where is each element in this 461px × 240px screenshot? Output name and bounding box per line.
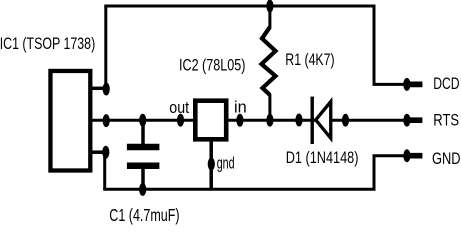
wire C1 top lead xyxy=(141,120,145,147)
svg-text:RTS: RTS xyxy=(433,111,459,130)
diode D1 cathode bar xyxy=(311,97,314,144)
svg-text:D1 (1N4148): D1 (1N4148) xyxy=(286,148,359,167)
terminal stub DCD xyxy=(406,82,422,88)
resistor R1 zigzag xyxy=(262,27,276,95)
IC1 TSOP1738 body xyxy=(50,71,90,171)
junction dot top rail at R1 xyxy=(266,0,273,13)
junction dot D1 anode lead xyxy=(295,114,302,127)
svg-text:R1 (4K7): R1 (4K7) xyxy=(285,50,334,69)
wire DCD drop from top rail xyxy=(373,6,376,84)
svg-text:IC1 (TSOP 1738): IC1 (TSOP 1738) xyxy=(0,34,95,53)
wire R1 bottom lead xyxy=(268,94,271,120)
junction dot C1 top xyxy=(139,114,146,127)
svg-text:GND: GND xyxy=(432,149,461,168)
junction dot C1 bottom xyxy=(139,183,146,196)
wire IC1 pin1 stub xyxy=(91,87,106,91)
junction dot D1 cathode lead xyxy=(342,114,349,127)
capacitor C1 bottom plate xyxy=(127,163,159,170)
wire IC1 pin3 stub xyxy=(91,150,106,154)
wire riser from IC1 pin1 to top rail xyxy=(104,6,107,88)
svg-text:out: out xyxy=(169,98,189,117)
wire top rail from IC1 riser to DCD drop xyxy=(104,5,375,8)
wire DCD horizontal to terminal xyxy=(373,83,408,86)
wire IC2 gnd lead xyxy=(209,139,213,189)
junction dot RTS rail at R1 xyxy=(266,114,273,127)
wire R1 top lead xyxy=(268,6,271,28)
svg-text:IC2 (78L05): IC2 (78L05) xyxy=(179,56,245,75)
junction dot IC1 pin3 xyxy=(102,146,109,159)
terminal dot RTS xyxy=(403,114,410,127)
junction dot IC2 in pin xyxy=(236,114,243,127)
junction dot IC1 pin2 xyxy=(103,114,110,127)
wire bottom ground rail xyxy=(103,188,375,191)
terminal dot DCD xyxy=(403,78,410,91)
diode D1 triangle xyxy=(314,97,333,143)
wire C1 bottom lead xyxy=(141,166,145,189)
terminal stub GND xyxy=(406,153,422,159)
wire RTS rail xyxy=(91,119,420,122)
junction dot IC2 out pin xyxy=(177,114,184,127)
wire GND horizontal to terminal xyxy=(373,154,408,157)
wire drop from IC1 pin3 to bottom rail xyxy=(103,152,106,189)
svg-text:C1 (4.7muF): C1 (4.7muF) xyxy=(109,205,179,225)
terminal stub RTS xyxy=(406,117,422,123)
terminal dot GND xyxy=(403,149,410,162)
svg-text:DCD: DCD xyxy=(433,74,459,93)
capacitor C1 top plate xyxy=(127,144,159,151)
IC2 78L05 body xyxy=(195,101,226,140)
svg-text:gnd: gnd xyxy=(217,153,235,172)
svg-text:in: in xyxy=(234,97,247,116)
junction dot IC1 pin1 xyxy=(103,83,110,96)
wire GND drop to bottom rail xyxy=(373,156,376,190)
junction dot IC2 gnd pin xyxy=(208,158,215,171)
